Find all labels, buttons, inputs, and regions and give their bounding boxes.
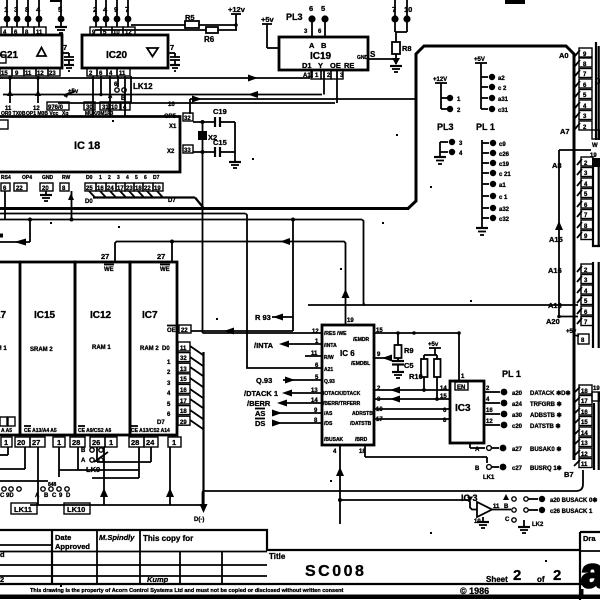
svg-text:RAM 2: RAM 2: [140, 346, 159, 352]
svg-text:16: 16: [581, 410, 588, 416]
svg-text:5: 5: [135, 175, 138, 181]
pin boxes below IC20: [87, 68, 130, 77]
svg-text:D7: D7: [157, 420, 165, 426]
svg-text:WE: WE: [104, 267, 114, 273]
svg-text:A: A: [309, 41, 315, 50]
svg-text:IC3: IC3: [455, 403, 471, 414]
wire data bus D(-) vertical: [194, 352, 208, 523]
jumper LK12: [108, 82, 153, 102]
svg-text:16: 16: [180, 388, 187, 394]
svg-text:/AS: /AS: [324, 411, 333, 417]
svg-text:of: of: [537, 575, 545, 584]
svg-text:SRAM 2: SRAM 2: [30, 347, 53, 353]
jumper LK2: [503, 494, 544, 533]
node c27 BUSRQ1: [475, 464, 562, 481]
svg-text:+12v: +12v: [228, 5, 246, 14]
svg-text:D0: D0: [85, 199, 93, 205]
svg-text:11: 11: [311, 351, 318, 357]
node Q93: [256, 376, 322, 385]
wire pin19 net down to A20: [555, 150, 591, 318]
connector PL3 header pins above IC19: [286, 4, 329, 37]
wire IC6 pin18 to BUSRQ: [359, 445, 487, 463]
svg-text:B7: B7: [564, 470, 574, 479]
svg-text:CE A13/CS2 A14: CE A13/CS2 A14: [131, 428, 170, 434]
svg-text:c26: c26: [499, 152, 510, 158]
node 27 WE labels: [101, 252, 170, 273]
svg-text:a2: a2: [498, 76, 505, 82]
svg-text:DS: DS: [255, 419, 265, 428]
wires IC6 to IC3: [374, 386, 450, 424]
svg-text:OE: OE: [167, 328, 176, 334]
svg-text:18: 18: [581, 389, 588, 395]
data bus D0-D7 from IC18: [0, 46, 574, 374]
node /INTA: [254, 341, 322, 351]
svg-text:C19: C19: [213, 107, 227, 116]
svg-text:c32: c32: [499, 217, 510, 223]
svg-text:/BERR/TRFERR: /BERR/TRFERR: [323, 401, 361, 407]
connector PL1: [476, 122, 511, 235]
wire IC6 /BUSAK pin4 down: [333, 445, 344, 524]
svg-text:c20: c20: [512, 424, 523, 430]
svg-text:Q.93: Q.93: [324, 379, 335, 385]
svg-text:R9: R9: [404, 346, 414, 355]
jumper row left: [0, 487, 21, 499]
svg-text:Title: Title: [269, 552, 286, 561]
wire W2 address: [0, 220, 578, 306]
wires IC19 bottom pins: [303, 70, 344, 103]
svg-text:PL3: PL3: [286, 12, 303, 22]
svg-text:MUX/0M1P3: MUX/0M1P3: [85, 111, 114, 117]
svg-text:24: 24: [146, 438, 155, 447]
svg-text:B: B: [81, 448, 86, 454]
svg-text:GND: GND: [357, 55, 369, 61]
svg-text:a20 BUSACK 0✱: a20 BUSACK 0✱: [550, 497, 597, 504]
CPU interface IC6: [322, 325, 374, 445]
svg-text:d: d: [0, 550, 5, 559]
svg-text:OP5: OP5: [164, 114, 177, 120]
svg-text:BUSAK0 ✱: BUSAK0 ✱: [530, 446, 561, 453]
svg-text:a: a: [581, 549, 600, 596]
svg-text:C: C: [505, 517, 510, 523]
svg-text:19: 19: [593, 386, 600, 392]
svg-text:OP1 M0B Vcc: OP1 M0B Vcc: [26, 111, 58, 117]
svg-text:A A5: A A5: [1, 428, 12, 434]
bottom strip: [0, 586, 600, 599]
wire OP5 to right with arrow: [168, 96, 416, 115]
svg-text:1: 1: [57, 438, 61, 447]
svg-text:+5v: +5v: [566, 329, 577, 335]
buffer IC3 bottom: [461, 493, 511, 528]
svg-text:/BUSAK: /BUSAK: [324, 437, 344, 443]
buffer IC19: [279, 37, 369, 70]
node a30 ADBSTB: [484, 408, 562, 419]
svg-text:EN: EN: [457, 385, 465, 391]
node a24 TRFGRB: [484, 397, 562, 408]
svg-text:27: 27: [32, 438, 40, 447]
svg-text:c 21: c 21: [499, 172, 511, 178]
svg-text:IC15: IC15: [34, 310, 56, 321]
+12V pins inside PL area: [433, 77, 461, 114]
svg-text:c19: c19: [499, 162, 510, 168]
svg-text:1: 1: [99, 175, 102, 181]
capacitor C-IC20 pin7 with ground: [168, 43, 180, 71]
svg-text:D(-): D(-): [194, 517, 204, 523]
+5V pins PL1 upper: [474, 57, 509, 114]
svg-text:B: B: [121, 96, 126, 102]
svg-text:2: 2: [553, 567, 561, 584]
pin number boxes above IC20: [90, 27, 135, 36]
svg-text:A7: A7: [560, 127, 570, 136]
RAM IC15: [20, 262, 75, 435]
svg-text:R/W: R/W: [324, 355, 334, 361]
node /DS: [255, 419, 322, 429]
svg-text:/DTACK 1: /DTACK 1: [244, 389, 278, 398]
svg-text:Date: Date: [55, 533, 71, 542]
wire BUSAK buffer input: [340, 500, 477, 510]
svg-text:11: 11: [581, 462, 588, 468]
svg-text:c 2: c 2: [498, 86, 507, 92]
svg-text:/INTA: /INTA: [324, 343, 337, 349]
pin number boxes on IC18 top: [5, 90, 130, 112]
svg-text:DATSTB ✱: DATSTB ✱: [530, 423, 561, 430]
svg-text:15: 15: [180, 377, 187, 383]
svg-text:A8: A8: [552, 161, 562, 170]
svg-text:1: 1: [4, 438, 8, 447]
svg-text:LK10: LK10: [67, 505, 85, 514]
svg-text:S: S: [370, 50, 376, 59]
svg-text:+5v: +5v: [261, 15, 275, 24]
svg-text:RAM 1: RAM 1: [0, 346, 7, 352]
RAM IC7: [130, 262, 177, 435]
svg-text:B: B: [44, 493, 49, 499]
svg-text:2: 2: [513, 567, 521, 584]
wire WE net: [115, 238, 346, 262]
svg-text:32: 32: [184, 116, 191, 122]
svg-text:a1: a1: [499, 183, 506, 189]
svg-text:14: 14: [440, 386, 447, 392]
svg-text:12: 12: [581, 452, 588, 458]
wire RW pin down with arrow: [68, 191, 74, 220]
svg-text:28: 28: [131, 438, 139, 447]
svg-text:D0: D0: [162, 346, 170, 352]
wire weave below IC21/IC20: [3, 75, 335, 117]
svg-text:R 93: R 93: [255, 313, 271, 322]
page top border mark: [505, 0, 525, 4]
svg-text:16: 16: [168, 102, 175, 108]
svg-text:R8: R8: [402, 44, 412, 53]
svg-text:CE A9/CS2 A6: CE A9/CS2 A6: [78, 428, 111, 434]
svg-text:2: 2: [108, 175, 111, 181]
svg-text:OR0 TX0B: OR0 TX0B: [1, 111, 26, 117]
RAM IC12: [75, 262, 130, 435]
svg-text:A: A: [35, 493, 40, 499]
node c20 DATSTB: [484, 419, 561, 430]
svg-text:TRFGRB ✱: TRFGRB ✱: [530, 401, 562, 408]
pin boxes below IC21: [0, 68, 60, 77]
svg-text:LK11: LK11: [14, 505, 32, 514]
svg-text:BUSRQ 1✱: BUSRQ 1✱: [530, 465, 562, 472]
svg-text:B: B: [321, 41, 327, 50]
svg-text:32: 32: [180, 356, 187, 362]
title block text: [0, 533, 596, 584]
svg-text:7: 7: [63, 43, 67, 52]
svg-text:19: 19: [347, 318, 354, 324]
+5V and resistors R10: [409, 342, 441, 401]
svg-text:17: 17: [180, 399, 187, 405]
svg-text:Y: Y: [318, 61, 323, 70]
right edge IC box borders: [598, 46, 600, 470]
svg-text:/EMDR: /EMDR: [353, 337, 370, 343]
svg-text:OP4: OP4: [22, 175, 32, 181]
node c26 BUSACK1: [524, 507, 593, 515]
svg-text:RS4: RS4: [1, 175, 11, 181]
svg-text:3: 3: [117, 175, 120, 181]
pin number boxes above IC21: [1, 27, 46, 36]
svg-text:a30: a30: [512, 413, 523, 419]
svg-text:29: 29: [180, 420, 187, 426]
svg-text:This copy for: This copy for: [143, 534, 193, 543]
latch IC3: [450, 381, 484, 443]
connector pins above IC20: [93, 0, 132, 27]
connector pins top-left group 1: [4, 0, 43, 27]
svg-text:10: 10: [404, 5, 412, 14]
jumper row middle: [35, 482, 71, 499]
svg-text:C 9D: C 9D: [0, 493, 14, 499]
wire left arrow at IC18 left: [0, 218, 74, 246]
svg-text:AS: AS: [255, 409, 265, 418]
svg-text:A20: A20: [546, 317, 560, 326]
wire R/W pin11: [305, 355, 322, 357]
svg-text:11: 11: [25, 71, 32, 77]
crystal X2 circuit: [193, 107, 241, 168]
svg-text:17: 17: [581, 399, 588, 405]
capacitor C-IC21 pin7 with ground: [62, 43, 74, 71]
resistor R5: [131, 13, 237, 28]
svg-text:IC7: IC7: [142, 310, 158, 321]
left RAM data pin boxes at edge: [0, 417, 15, 426]
node a20 BUSACK0: [524, 496, 598, 504]
svg-text:a31: a31: [498, 97, 509, 103]
svg-text:LK2: LK2: [532, 522, 544, 528]
wire A20 feed: [559, 316, 578, 318]
svg-text:A0: A0: [559, 51, 569, 60]
wire IC18 pin6 stub: [4, 191, 6, 220]
svg-text:IC 6: IC 6: [340, 349, 355, 358]
svg-text:RAM 1: RAM 1: [92, 345, 111, 351]
svg-text:28: 28: [72, 438, 80, 447]
svg-text:14: 14: [581, 431, 588, 437]
svg-text:2: 2: [0, 575, 4, 584]
svg-text:13: 13: [311, 388, 318, 394]
svg-text:D0: D0: [86, 175, 93, 181]
svg-text:D7: D7: [168, 198, 176, 204]
node a20 DATACK: [484, 386, 571, 397]
svg-text:26: 26: [92, 438, 100, 447]
wire IC3 pin1 up: [457, 331, 465, 381]
title block frame: [0, 530, 600, 600]
svg-text:Sheet: Sheet: [486, 575, 508, 584]
svg-text:27: 27: [157, 252, 165, 261]
jumper LK11: [11, 503, 37, 514]
svg-text:/DS: /DS: [324, 421, 333, 427]
svg-text:PL 1: PL 1: [476, 122, 495, 132]
wire y305 left segment: [308, 304, 365, 306]
wires RAM pins to links: [0, 447, 202, 505]
node /DTACK: [244, 389, 322, 398]
svg-text:LK1: LK1: [483, 475, 495, 481]
jumper LK10: [64, 503, 90, 514]
svg-text:X2: X2: [208, 133, 217, 142]
svg-text:7: 7: [170, 43, 174, 52]
svg-text:5: 5: [321, 4, 325, 13]
wire vertical X2 net to IC6 pin12: [203, 152, 323, 333]
svg-text:/BRD: /BRD: [355, 437, 368, 443]
svg-text:PL3: PL3: [437, 122, 454, 132]
svg-text:15: 15: [581, 420, 588, 426]
svg-text:WE: WE: [160, 267, 170, 273]
svg-text:B: B: [504, 504, 509, 510]
svg-text:15: 15: [1, 71, 8, 77]
+5v into IC18: [63, 89, 79, 98]
node /EMDBL arrow: [374, 352, 392, 362]
svg-text:a20: a20: [512, 391, 523, 397]
jumper LK9: [81, 448, 108, 474]
svg-text:17: 17: [376, 417, 383, 423]
svg-text:X1: X1: [169, 124, 177, 130]
svg-text:c 1: c 1: [499, 195, 508, 201]
svg-text:Xq: Xq: [62, 111, 68, 117]
svg-text:c26 BUSACK 1: c26 BUSACK 1: [550, 509, 593, 515]
svg-text:Approved: Approved: [55, 542, 90, 551]
svg-text:GND: GND: [42, 175, 54, 181]
svg-text:RW: RW: [62, 175, 71, 181]
svg-text:W: W: [592, 143, 598, 149]
buffer IC20: [82, 35, 168, 68]
IC7 data pin boxes and ramp to D(-) bus: [178, 342, 203, 429]
svg-text:R10: R10: [409, 372, 423, 381]
svg-text:IC12: IC12: [90, 310, 112, 321]
svg-text:A1: A1: [303, 73, 311, 79]
IC18: [0, 111, 180, 181]
svg-text:CE A13/A4 A5: CE A13/A4 A5: [24, 428, 57, 434]
svg-text:13: 13: [581, 441, 588, 447]
svg-text:11: 11: [180, 346, 187, 352]
svg-text:M.Spindly: M.Spindly: [99, 533, 135, 542]
wire IC6 pin19: [342, 262, 355, 325]
svg-text:a27: a27: [512, 447, 523, 453]
svg-text:R6: R6: [204, 35, 215, 44]
svg-text:27: 27: [101, 252, 109, 261]
RAM bottom pin boxes: [1, 437, 181, 447]
svg-text:Kump: Kump: [147, 575, 169, 584]
connector pin 5 with ground: [55, 0, 67, 33]
svg-text:/RES /WE: /RES /WE: [324, 331, 347, 337]
RAM IC17 (partial at left edge): [0, 262, 20, 435]
svg-text:D: D: [66, 493, 71, 499]
resistor R8 with pins 7 10: [391, 0, 412, 65]
node /AS: [255, 409, 322, 419]
svg-text:Dra: Dra: [583, 534, 596, 543]
svg-text:a32: a32: [499, 207, 510, 213]
svg-text:ADBSTB ✱: ADBSTB ✱: [530, 412, 562, 419]
node /BERR: [247, 399, 322, 408]
svg-text:ADRSTB: ADRSTB: [352, 411, 373, 417]
svg-text:c9: c9: [499, 142, 506, 148]
svg-text:B: B: [475, 466, 480, 472]
svg-text:LK12: LK12: [133, 82, 153, 91]
IC18 side pin boxes X1 X2: [183, 113, 193, 154]
svg-text:X2: X2: [167, 149, 175, 155]
svg-text:12: 12: [312, 329, 319, 335]
svg-text:This drawing is the property o: This drawing is the property of Acorn Co…: [30, 588, 343, 594]
connector column D bus 18-11: [564, 385, 600, 479]
svg-text:6: 6: [309, 4, 313, 13]
node a27 BUSAK0: [470, 443, 561, 453]
svg-text:13: 13: [180, 367, 187, 373]
svg-text:A: A: [108, 94, 113, 100]
IC7 OE pin box 22 and wire: [179, 325, 293, 335]
svg-text:IC20: IC20: [106, 50, 128, 61]
svg-text:IOTACK/DTACK: IOTACK/DTACK: [323, 391, 361, 397]
connector column A0-A7: [559, 42, 600, 149]
svg-text:1: 1: [109, 438, 113, 447]
resistor R6: [95, 27, 237, 44]
svg-text:6: 6: [144, 175, 147, 181]
svg-text:23: 23: [49, 71, 56, 77]
svg-text:14: 14: [311, 398, 318, 404]
connector column A16-A20: [546, 262, 593, 348]
svg-text:OE: OE: [330, 61, 341, 70]
svg-text:20: 20: [17, 438, 25, 447]
svg-text:33: 33: [184, 148, 191, 154]
IC19 GND pin wire S: [368, 50, 396, 59]
wire R93 vertical: [255, 218, 295, 332]
svg-text:SC008: SC008: [305, 563, 366, 580]
svg-text:10: 10: [376, 407, 383, 413]
svg-text:c31: c31: [498, 108, 509, 114]
svg-text:Q.93: Q.93: [256, 376, 272, 385]
ground under IC18 GND pin: [40, 191, 52, 201]
IC6 left pin numbers: [311, 329, 319, 424]
svg-text:D1: D1: [302, 61, 312, 70]
+5V for IC19: [261, 15, 279, 48]
svg-text:/DATSTB: /DATSTB: [350, 421, 372, 427]
svg-text:22: 22: [16, 186, 23, 192]
svg-text:PL 1: PL 1: [502, 369, 521, 379]
svg-text:/BERR: /BERR: [247, 399, 271, 408]
svg-text:DATACK ✱D✱: DATACK ✱D✱: [530, 390, 571, 397]
svg-text:c27: c27: [512, 466, 523, 472]
svg-text:D7: D7: [153, 175, 160, 181]
ground under R8: [390, 66, 402, 72]
svg-text:A21: A21: [324, 367, 333, 373]
svg-text:22: 22: [181, 328, 188, 334]
svg-text:4: 4: [126, 175, 129, 181]
svg-text:a24: a24: [512, 402, 523, 408]
svg-text:A: A: [81, 458, 86, 464]
resistor R9 and capacitor C5 on pin15: [374, 328, 460, 378]
svg-text:A15: A15: [549, 235, 563, 244]
+12V supply top: [228, 5, 246, 30]
wire /INTA A21 vertical: [0, 214, 322, 369]
wire bus tail to BUSACK area: [203, 372, 584, 505]
svg-text:/INTA: /INTA: [254, 341, 274, 350]
svg-text:1: 1: [172, 438, 176, 447]
svg-text:IC17: IC17: [0, 310, 7, 321]
connector column A8-A15: [549, 153, 600, 246]
left edge tick boxes: [0, 55, 8, 129]
IC18 bottom pin boxes: [1, 183, 163, 192]
